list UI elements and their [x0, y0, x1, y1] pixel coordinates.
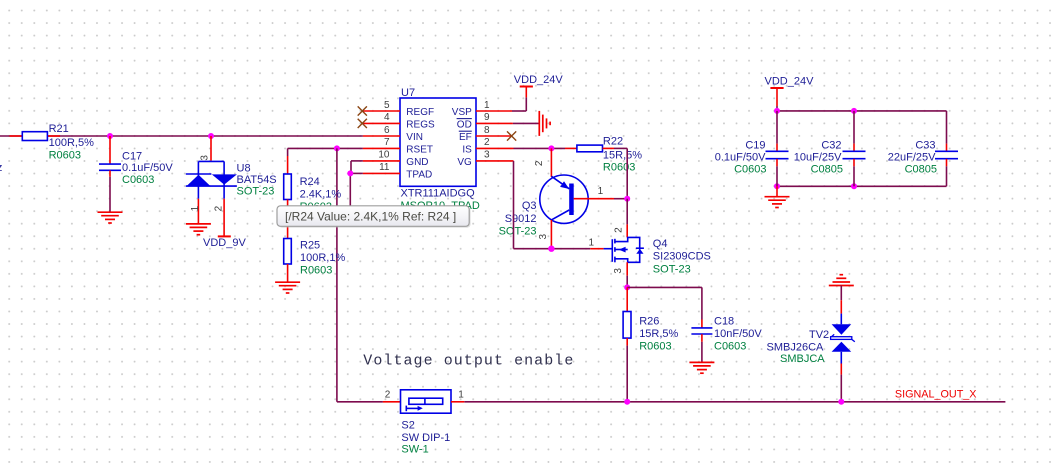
svg-text:Q3: Q3: [522, 200, 537, 212]
svg-text:3: 3: [613, 268, 624, 274]
wire across to C18: [627, 287, 702, 319]
label R24 values: [300, 176, 342, 213]
svg-text:U8: U8: [237, 163, 251, 175]
svg-text:7: 7: [384, 137, 390, 148]
svg-text:R0603: R0603: [49, 149, 81, 161]
wire GND/TPAD common branch: [350, 161, 363, 211]
svg-text:SW-1: SW-1: [401, 444, 428, 456]
svg-text:GND: GND: [406, 157, 428, 168]
wire R22 to Q4 drain: [614, 148, 627, 198]
svg-text:C0805: C0805: [905, 163, 937, 175]
svg-text:8: 8: [484, 125, 490, 136]
wire C18 to ground: [701, 342, 703, 362]
pin 5 REGF of U7: [362, 100, 434, 118]
svg-text:0.1uF/50V: 0.1uF/50V: [122, 162, 173, 174]
svg-text:REGS: REGS: [406, 119, 435, 130]
ground below C17: [98, 212, 123, 223]
svg-text:C18: C18: [714, 315, 734, 327]
svg-text:Q4: Q4: [653, 238, 668, 250]
svg-text:15R,5%: 15R,5%: [639, 328, 678, 340]
svg-text:22uF/25V: 22uF/25V: [888, 152, 936, 164]
pin 8 EF of U7: [459, 125, 512, 143]
switch S2 SW DIP-1: [383, 390, 464, 413]
transistor Q4 SI2309CDS: [590, 224, 644, 275]
svg-text:BAT54S: BAT54S: [237, 174, 277, 186]
ground below U8 pin 1: [186, 224, 211, 235]
wire IS net to R22: [514, 147, 566, 149]
label R22 values: [603, 136, 642, 174]
diode U8 BAT54S: [186, 136, 237, 236]
svg-text:VG: VG: [457, 157, 472, 168]
svg-text:SOT-23: SOT-23: [499, 225, 537, 237]
resistor R22: [565, 145, 614, 152]
svg-text:SI2309CDS: SI2309CDS: [653, 251, 711, 263]
svg-text:2: 2: [213, 205, 224, 211]
svg-text:VIN: VIN: [406, 132, 423, 143]
wire main horizontal net to U7 VIN: [0, 135, 363, 137]
svg-text:1: 1: [190, 205, 201, 211]
svg-text:6: 6: [384, 125, 390, 136]
svg-text:100R,5%: 100R,5%: [49, 137, 94, 149]
svg-text:SW DIP-1: SW DIP-1: [401, 432, 450, 444]
no-connect cross on pin 5: [358, 106, 367, 115]
junction node Q4 source / R26 / C18: [624, 284, 630, 290]
junction node top rail at C19: [774, 108, 780, 114]
svg-text:U7: U7: [401, 87, 415, 99]
svg-text:R21: R21: [49, 123, 69, 135]
svg-text:S2: S2: [401, 420, 414, 432]
wire C17 to ground: [109, 177, 111, 212]
svg-text:C17: C17: [122, 151, 142, 163]
pin 9 OD of U7: [457, 112, 513, 130]
svg-text:2: 2: [385, 390, 391, 401]
svg-text:VDD_9V: VDD_9V: [203, 237, 246, 249]
junction node RSET to switch branch: [334, 145, 340, 151]
wire ground to TV2: [840, 286, 842, 301]
svg-text:R24: R24: [300, 176, 320, 188]
svg-text:2: 2: [534, 160, 545, 166]
svg-text:1: 1: [589, 238, 595, 249]
svg-text:C33: C33: [915, 140, 935, 152]
svg-text:z: z: [0, 162, 2, 174]
svg-text:15R,5%: 15R,5%: [603, 150, 642, 162]
svg-text:VDD_24V: VDD_24V: [765, 76, 815, 88]
svg-text:2: 2: [484, 137, 490, 148]
svg-text:R0603: R0603: [300, 265, 332, 277]
svg-text:2.4K,1%: 2.4K,1%: [300, 189, 342, 201]
label Q4 values: [653, 238, 711, 276]
svg-text:10: 10: [378, 150, 390, 161]
op-amp U7 XTR111AIDGQ body: [400, 98, 476, 186]
capacitor C18: [691, 320, 712, 342]
label C19 values: [715, 140, 767, 176]
svg-text:C32: C32: [821, 140, 841, 152]
svg-text:10uF/25V: 10uF/25V: [794, 152, 842, 164]
resistor R21: [10, 132, 61, 141]
svg-text:XTR111AIDGQ: XTR111AIDGQ: [401, 187, 476, 199]
pin 6 VIN of U7: [363, 125, 423, 143]
capacitor C33: [935, 111, 958, 186]
pin 1 VSP of U7: [452, 100, 512, 118]
power VDD_9V below U8 pin 2: [203, 236, 246, 249]
transistor Q3 S9012: [540, 148, 614, 248]
junction node top rail at C32: [851, 108, 857, 114]
svg-text:5: 5: [384, 100, 390, 111]
ground below cap bank: [765, 197, 790, 208]
svg-text:[/R24 Value: 2.4K,1% Ref: R24: [/R24 Value: 2.4K,1% Ref: R24 ]: [285, 210, 456, 224]
svg-text:SIGNAL_OUT_X: SIGNAL_OUT_X: [895, 389, 977, 401]
junction node Q3 base / Q4 drain: [624, 196, 630, 202]
svg-text:VSP: VSP: [452, 107, 472, 118]
svg-text:C0603: C0603: [714, 340, 746, 352]
svg-text:SMBJ26CA: SMBJ26CA: [767, 341, 825, 353]
wire Q4 drain vertical: [626, 199, 628, 225]
ground below R25: [275, 282, 300, 293]
svg-text:OD: OD: [457, 119, 472, 130]
wire bottom rail of cap bank: [777, 185, 947, 187]
label U8 values: [237, 163, 277, 198]
svg-text:Voltage output enable: Voltage output enable: [363, 353, 574, 370]
junction node IS/Q3 emitter: [548, 145, 554, 151]
svg-text:100R,1%: 100R,1%: [300, 252, 345, 264]
svg-text:EF: EF: [459, 132, 472, 143]
svg-text:R25: R25: [300, 240, 320, 252]
pin 2 IS of U7: [462, 137, 513, 155]
junction node bottom rail at C32: [851, 183, 857, 189]
no-connect cross on pin 4: [358, 119, 367, 128]
wire VG net down and across to Q4 gate: [514, 161, 591, 249]
label S2 values: [401, 420, 450, 456]
pin 7 RSET of U7: [363, 137, 433, 155]
wire cap bank bottom rail to ground: [776, 186, 778, 196]
capacitor C19: [766, 111, 789, 186]
svg-text:RSET: RSET: [406, 144, 433, 155]
label TV2 values: [767, 329, 830, 365]
svg-text:1: 1: [458, 390, 464, 401]
no-connect cross on pin 8: [507, 131, 516, 140]
pin 3 VG of U7: [457, 150, 513, 168]
capacitor C32: [843, 111, 866, 186]
svg-text:R0603: R0603: [639, 340, 671, 352]
svg-text:1: 1: [484, 100, 490, 111]
resistor R24: [284, 156, 292, 239]
pin 11 TPAD of U7: [363, 162, 432, 180]
power VDD_24V above U7: [514, 74, 564, 97]
label C17 values: [122, 151, 173, 186]
label U7 part values: [401, 187, 480, 212]
wire from RSET junction down to switch S2: [337, 148, 383, 401]
junction node at C17 tap: [107, 133, 113, 139]
power VDD_24V above decoupling caps: [765, 76, 815, 111]
capacitor C17: [99, 136, 121, 177]
pin 4 REGS of U7: [362, 112, 435, 130]
label R26 values: [639, 315, 678, 352]
svg-text:R0603: R0603: [603, 161, 635, 173]
svg-text:1: 1: [598, 186, 604, 197]
wire TV2 to bottom net: [840, 375, 842, 402]
svg-text:C19: C19: [745, 140, 765, 152]
svg-text:REGF: REGF: [406, 107, 434, 118]
junction node at U8 tap: [208, 133, 214, 139]
svg-text:C0603: C0603: [734, 163, 766, 175]
svg-text:C0603: C0603: [122, 174, 154, 186]
svg-text:R22: R22: [603, 136, 623, 148]
resistor R26: [623, 287, 631, 345]
wire R26 to bottom wire: [626, 346, 628, 402]
svg-text:10nF/50V: 10nF/50V: [714, 328, 762, 340]
svg-text:2: 2: [614, 227, 625, 233]
wire Q3 base to Q4 drain net: [614, 198, 627, 200]
junction node bottom net at TV2: [838, 399, 844, 405]
label C32 values: [794, 140, 843, 176]
wire Q4 source to bottom net: [626, 276, 628, 288]
wire RSET net from R24 to U7 pin 7: [288, 148, 363, 156]
ground sideways at OD pin: [539, 111, 550, 136]
junction node GND/TPAD: [347, 170, 353, 176]
junction node Q3 collector / gate net: [548, 246, 554, 252]
wire bottom SIGNAL_OUT_X net: [464, 401, 1005, 403]
label C18 values: [714, 315, 762, 352]
svg-text:SMBJCA: SMBJCA: [780, 353, 825, 365]
junction node bottom net at R26: [624, 399, 630, 405]
diode TV2 SMBJ26CA: [831, 300, 855, 374]
pin 10 GND of U7: [363, 150, 429, 168]
svg-text:TPAD: TPAD: [406, 169, 432, 180]
svg-text:S9012: S9012: [505, 213, 537, 225]
svg-text:0.1uF/50V: 0.1uF/50V: [715, 152, 766, 164]
label Q3 values: [499, 200, 537, 237]
svg-text:11: 11: [379, 162, 390, 173]
svg-text:3: 3: [484, 150, 490, 161]
label R25 values: [300, 240, 345, 277]
svg-text:3: 3: [200, 155, 211, 161]
svg-text:9: 9: [484, 112, 490, 123]
svg-text:VDD_24V: VDD_24V: [514, 74, 564, 86]
wire VSP to VDD_24V: [512, 97, 526, 111]
svg-text:SOT-23: SOT-23: [237, 186, 275, 198]
label C33 values: [888, 140, 937, 176]
svg-text:TV2: TV2: [809, 329, 829, 341]
wire top rail of cap bank: [777, 110, 947, 112]
svg-text:IS: IS: [462, 144, 472, 155]
svg-text:SOT-23: SOT-23: [653, 264, 691, 276]
svg-text:R26: R26: [639, 315, 659, 327]
svg-text:4: 4: [384, 112, 390, 123]
tooltip popup for R24: [277, 206, 471, 228]
ground below C18: [689, 362, 714, 373]
resistor R25: [284, 239, 292, 283]
svg-text:3: 3: [538, 233, 549, 239]
svg-text:C0805: C0805: [811, 163, 843, 175]
label R21 values: [49, 123, 94, 161]
junction node bottom rail at C19: [774, 183, 780, 189]
ground inverted above TV2: [829, 275, 854, 286]
wire OD to ground: [513, 122, 539, 124]
